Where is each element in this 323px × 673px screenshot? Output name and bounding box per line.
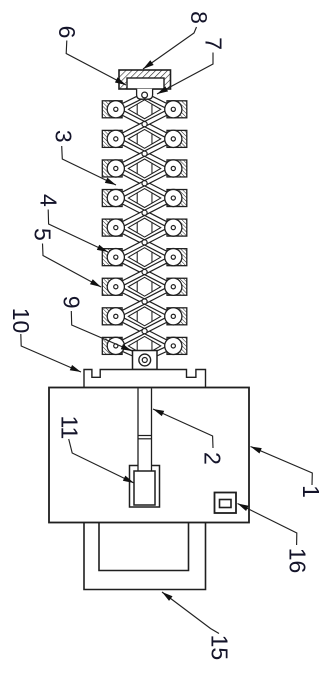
svg-text:6: 6: [54, 26, 80, 39]
svg-text:2: 2: [200, 452, 226, 465]
svg-text:1: 1: [298, 485, 323, 498]
svg-text:11: 11: [57, 415, 83, 439]
svg-text:10: 10: [8, 308, 34, 334]
svg-text:3: 3: [51, 130, 77, 143]
svg-text:15: 15: [207, 635, 233, 661]
svg-text:7: 7: [201, 37, 227, 50]
svg-text:5: 5: [29, 228, 55, 241]
svg-text:16: 16: [285, 548, 311, 574]
svg-text:9: 9: [59, 296, 85, 309]
svg-text:4: 4: [36, 194, 62, 207]
svg-text:8: 8: [186, 11, 212, 24]
